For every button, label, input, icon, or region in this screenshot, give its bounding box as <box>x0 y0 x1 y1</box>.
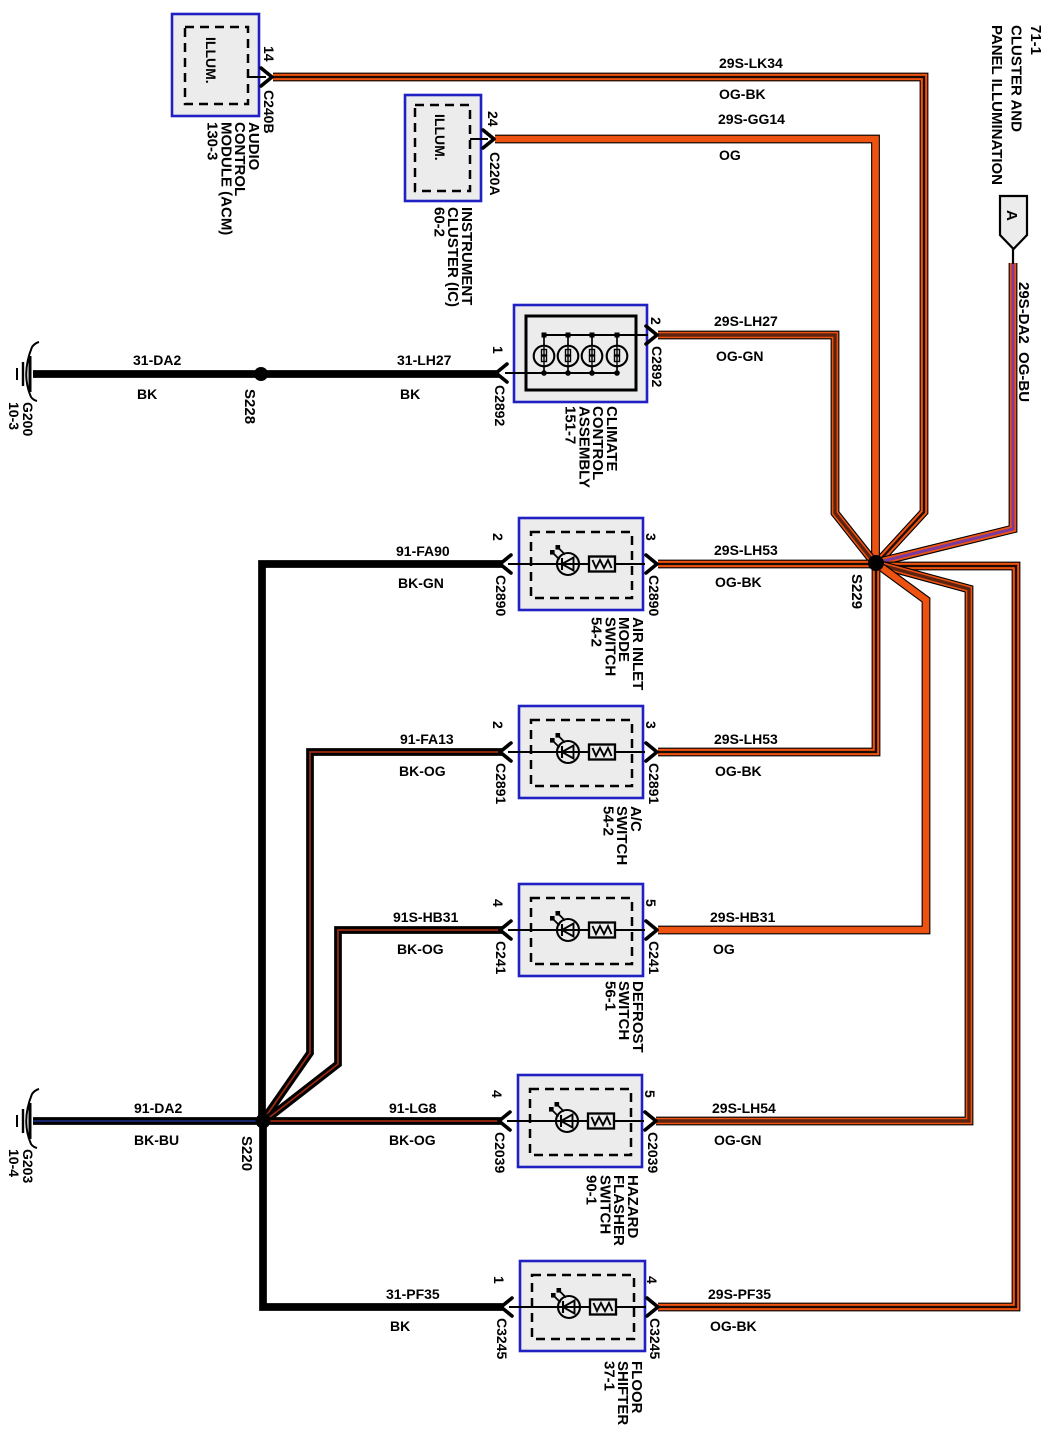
wire 29S-HB31 OG from S229 to C241 <box>658 564 926 930</box>
svg-text:37-1: 37-1 <box>600 1361 617 1391</box>
svg-text:OG-BK: OG-BK <box>710 1318 757 1334</box>
off-page connector A <box>1000 196 1027 264</box>
connector C2892 (right) <box>649 346 665 387</box>
svg-text:5: 5 <box>643 899 659 907</box>
connector C3245 (left) <box>494 1318 510 1359</box>
svg-text:29S-LH53: 29S-LH53 <box>714 731 778 747</box>
pin 2 of C2890 <box>490 533 506 541</box>
connector C2890 (right) <box>646 575 662 616</box>
svg-text:OG-BK: OG-BK <box>715 574 762 590</box>
svg-text:OG: OG <box>713 941 735 957</box>
svg-text:29S-DA2 OG-BU: 29S-DA2 OG-BU <box>1015 282 1032 402</box>
svg-text:BK-OG: BK-OG <box>389 1132 436 1148</box>
svg-text:BK: BK <box>137 386 157 402</box>
connector C240B <box>261 90 277 134</box>
svg-text:10-3: 10-3 <box>6 402 22 430</box>
connector C220A <box>487 152 503 196</box>
svg-text:C241: C241 <box>646 941 662 975</box>
wire label 31-PF35 BK <box>386 1286 440 1334</box>
wire 91-FA13 BK-OG from S220 to C2891 <box>264 752 503 1119</box>
svg-text:C2890: C2890 <box>493 575 509 616</box>
component name AIR INLET <box>588 617 646 690</box>
title 71-1 CLUSTER AND PANEL ILLUMINATION <box>988 25 1044 185</box>
component name INSTRUMENT CLUSTER <box>430 207 475 307</box>
pin 1 of C3245 <box>491 1276 507 1284</box>
ILLUM. label in IC <box>432 114 448 161</box>
ground label G200 10-3 <box>6 402 36 436</box>
hazard flasher switch box with lamp <box>499 1075 656 1167</box>
svg-text:3: 3 <box>643 721 659 729</box>
wire 29S-PF35 OG-BK from S229 to C3245 <box>658 566 1016 1307</box>
svg-text:BK-OG: BK-OG <box>397 941 444 957</box>
svg-text:56-1: 56-1 <box>601 981 618 1011</box>
connector C2891 (right) <box>646 763 662 804</box>
svg-text:C2039: C2039 <box>645 1132 661 1173</box>
svg-text:29S-LH54: 29S-LH54 <box>712 1100 776 1116</box>
svg-text:29S-GG14: 29S-GG14 <box>718 111 785 127</box>
svg-text:29S-PF35: 29S-PF35 <box>708 1286 771 1302</box>
svg-text:10-4: 10-4 <box>6 1149 22 1177</box>
splice S220 <box>256 1114 271 1129</box>
svg-text:C2891: C2891 <box>493 763 509 804</box>
svg-text:2: 2 <box>648 317 664 325</box>
component name FLOOR <box>600 1361 645 1425</box>
svg-text:C2039: C2039 <box>492 1132 508 1173</box>
label A in connector <box>1003 210 1020 221</box>
svg-text:CLUSTER AND: CLUSTER AND <box>1008 25 1025 132</box>
svg-text:29S-LH53: 29S-LH53 <box>714 542 778 558</box>
svg-text:2: 2 <box>490 533 506 541</box>
component name AUDIO CONTROL MODULE <box>204 122 262 235</box>
svg-text:C3245: C3245 <box>494 1318 510 1359</box>
svg-text:OG-BK: OG-BK <box>719 86 766 102</box>
splice label S220 <box>238 1136 255 1171</box>
connector C241 (left) <box>493 941 509 975</box>
svg-text:91-FA13: 91-FA13 <box>400 731 454 747</box>
svg-text:C241: C241 <box>493 941 509 975</box>
connector C241 (right) <box>646 941 662 975</box>
wire label 31-DA2 BK <box>133 352 181 402</box>
svg-text:2: 2 <box>490 721 506 729</box>
component name A/C <box>599 806 644 865</box>
svg-text:S229: S229 <box>848 574 865 609</box>
svg-text:BK-OG: BK-OG <box>399 763 446 779</box>
wire label 29S-LH53 OG-BK (A/C) <box>714 731 778 779</box>
wire label 29S-LH53 OG-BK (air inlet) <box>714 542 778 590</box>
svg-text:4: 4 <box>490 899 506 907</box>
svg-text:C3245: C3245 <box>647 1318 663 1359</box>
svg-text:60-2: 60-2 <box>430 207 447 237</box>
connector C2039 (right) <box>645 1132 661 1173</box>
defrost switch box with lamp <box>500 884 657 976</box>
splice S228 <box>254 367 268 381</box>
svg-text:31-LH27: 31-LH27 <box>397 352 452 368</box>
ground G200 <box>17 342 39 401</box>
wire label 29S-LH27 OG-GN <box>714 313 778 364</box>
A/C switch box with lamp <box>500 706 657 798</box>
wire label 31-LH27 BK <box>397 352 452 402</box>
ground G203 <box>17 1089 39 1148</box>
pin 4 of C2039 <box>489 1090 505 1098</box>
svg-text:BK-GN: BK-GN <box>398 575 444 591</box>
climate control assembly box with 4 illumination bulbs <box>496 305 657 402</box>
floor shifter box with lamp <box>501 1261 658 1351</box>
svg-text:151-7: 151-7 <box>562 406 579 444</box>
pin 5 of C241 <box>643 899 659 907</box>
wire label 91S-HB31 BK-OG <box>393 909 459 957</box>
connector C2891 (left) <box>493 763 509 804</box>
svg-text:4: 4 <box>489 1090 505 1098</box>
svg-text:1: 1 <box>490 346 506 354</box>
ILLUM. label in ACM <box>203 37 219 84</box>
wire 91-LG8 BK-OG from S220 to C2039 <box>263 1117 502 1125</box>
pin 4 of C241 <box>490 899 506 907</box>
wire 29S-LH54 OG-GN from S229 to C2039 <box>656 564 969 1121</box>
connector C3245 (right) <box>647 1318 663 1359</box>
component name CLIMATE CONTROL ASSEMBLY <box>562 406 620 488</box>
svg-text:54-2: 54-2 <box>588 617 605 647</box>
splice label S229 <box>848 574 865 609</box>
air inlet mode switch box with lamp U-sw1 <box>500 518 657 610</box>
wire 29S-LH27 OG-GN from C2892 to S229 <box>658 335 873 561</box>
svg-text:31-PF35: 31-PF35 <box>386 1286 440 1302</box>
wire 31-PF35 BK from S220 to C3245 <box>263 1121 504 1307</box>
wire label 29S-PF35 OG-BK <box>708 1286 771 1334</box>
wire label 29S-LH54 OG-GN <box>712 1100 776 1148</box>
wire 91S-HB31 BK-OG from S220 to C241 <box>266 930 503 1120</box>
svg-text:BK: BK <box>400 386 420 402</box>
svg-text:31-DA2: 31-DA2 <box>133 352 181 368</box>
wire 29S-LH53 OG-BK from S229 to C2891 <box>658 564 876 752</box>
svg-text:C240B: C240B <box>261 90 277 134</box>
ground label G203 10-4 <box>6 1149 36 1183</box>
svg-text:C2892: C2892 <box>649 346 665 387</box>
splice label S228 <box>241 389 258 424</box>
svg-text:ILLUM.: ILLUM. <box>432 114 448 161</box>
wire label 91-FA13 BK-OG <box>399 731 454 779</box>
svg-text:C2892: C2892 <box>492 385 508 426</box>
svg-text:91-LG8: 91-LG8 <box>389 1100 437 1116</box>
svg-text:S228: S228 <box>241 389 258 424</box>
pin 3 of C2890 <box>643 533 659 541</box>
wire label 29S-DA2 OG-BU vertical <box>1015 282 1032 402</box>
svg-text:3: 3 <box>643 533 659 541</box>
splice S229 <box>868 555 884 571</box>
svg-text:91S-HB31: 91S-HB31 <box>393 909 459 925</box>
svg-text:29S-HB31: 29S-HB31 <box>710 909 776 925</box>
svg-text:24: 24 <box>485 111 501 127</box>
svg-text:C2890: C2890 <box>646 575 662 616</box>
svg-text:A: A <box>1003 210 1020 221</box>
svg-text:BK: BK <box>390 1318 410 1334</box>
svg-text:C220A: C220A <box>487 152 503 196</box>
svg-text:ILLUM.: ILLUM. <box>203 37 219 84</box>
component name DEFROST <box>601 981 646 1053</box>
pin 2 of C2892 <box>648 317 664 325</box>
svg-text:4: 4 <box>644 1276 660 1284</box>
svg-text:S220: S220 <box>238 1136 255 1171</box>
svg-text:1: 1 <box>491 1276 507 1284</box>
svg-text:130-3: 130-3 <box>204 122 221 160</box>
svg-text:29S-LH27: 29S-LH27 <box>714 313 778 329</box>
wire 29S-LH53 OG-BK from C2890 to S229 <box>658 560 876 569</box>
svg-text:OG-GN: OG-GN <box>714 1132 761 1148</box>
svg-text:C2891: C2891 <box>646 763 662 804</box>
pin 2 of C2891 <box>490 721 506 729</box>
svg-text:91-DA2: 91-DA2 <box>134 1100 182 1116</box>
svg-text:5: 5 <box>642 1090 658 1098</box>
wire label 91-FA90 BK-GN <box>396 543 450 591</box>
pin 5 of C2039 <box>642 1090 658 1098</box>
wire label 91-DA2 BK-BU <box>134 1100 182 1148</box>
instrument cluster (IC) box <box>405 95 494 201</box>
wire label 29S-GG14 OG <box>718 111 785 163</box>
svg-text:OG: OG <box>719 147 741 163</box>
svg-text:PANEL ILLUMINATION: PANEL ILLUMINATION <box>988 25 1005 185</box>
wire 29S-DA2 OG-BU from connector A to S229 <box>879 263 1013 562</box>
wire 31-DA2 / 31-LH27 BK from G200 through S228 to C2892 <box>33 370 499 378</box>
svg-text:14: 14 <box>261 46 277 62</box>
wire 29S-GG14 OG from C220A to S229 <box>495 139 876 560</box>
connector C2892 (left) <box>492 385 508 426</box>
svg-text:71-1: 71-1 <box>1027 25 1044 55</box>
svg-text:OG-GN: OG-GN <box>716 348 763 364</box>
svg-text:91-FA90: 91-FA90 <box>396 543 450 559</box>
connector C2890 (left) <box>493 575 509 616</box>
svg-text:OG-BK: OG-BK <box>715 763 762 779</box>
svg-text:54-2: 54-2 <box>599 806 616 836</box>
pin 14 of C240B <box>261 46 277 62</box>
wire label 29S-HB31 OG <box>710 909 776 957</box>
component name HAZARD <box>583 1175 641 1246</box>
connector C2039 (left) <box>492 1132 508 1173</box>
wire 91-DA2 BK-BU from G203 to S220 <box>33 1117 263 1125</box>
pin 24 of C220A <box>485 111 501 127</box>
pin 1 of C2892 <box>490 346 506 354</box>
wire label 91-LG8 BK-OG <box>389 1100 437 1148</box>
svg-text:29S-LK34: 29S-LK34 <box>719 55 783 71</box>
wire label 29S-LK34 OG-BK <box>719 55 783 102</box>
svg-text:BK-BU: BK-BU <box>134 1132 179 1148</box>
audio control module (ACM) box <box>172 14 272 116</box>
wire 29S-LK34 OG-BK from C240B to S229 <box>273 77 924 561</box>
wire 91-FA90 BK-GN from S220 riser to C2890 <box>262 564 503 1121</box>
pin 3 of C2891 <box>643 721 659 729</box>
pin 4 of C3245 <box>644 1276 660 1284</box>
svg-text:90-1: 90-1 <box>583 1175 600 1205</box>
